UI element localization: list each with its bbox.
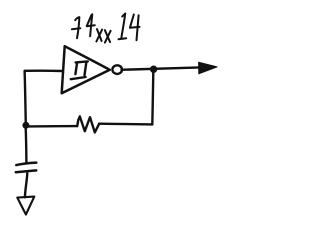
node B (junction dot on output) [150,66,157,73]
inverter U1 (74xx14 Schmitt trigger) [62,46,110,93]
hysteresis symbol [71,61,88,79]
node A (junction dot left) [22,122,29,129]
wire: output line [122,67,201,69]
capacitor C1 bottom plate [16,170,36,172]
label 74xx14 [72,14,140,43]
wire: right vertical (output feedback) [152,72,153,124]
ground [17,197,34,215]
wire: node A down to capacitor [25,129,28,163]
wire: inverter input to left rail [25,69,62,72]
output bubble [112,65,122,74]
capacitor C1 top plate [16,163,36,166]
resistor R1 [77,116,99,132]
wire: left vertical rail [25,71,26,125]
output arrowhead [199,62,217,74]
wire: capacitor to ground [25,173,27,197]
wire: resistor to right corner [99,122,152,125]
wire: node A to resistor [29,125,78,128]
